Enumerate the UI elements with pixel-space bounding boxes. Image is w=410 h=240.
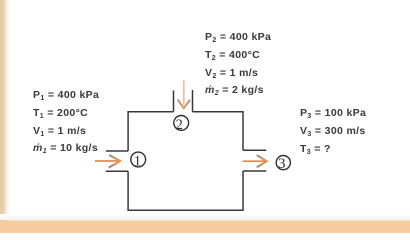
- node circle 1: [131, 152, 146, 167]
- inlet pipe 1 walls: [106, 151, 128, 171]
- inlet pipe 2 walls: [174, 90, 193, 112]
- stream 2 labels: [205, 29, 271, 100]
- stream 3 labels: [300, 104, 366, 159]
- svg-text:3: 3: [278, 156, 286, 172]
- node circle 2: [174, 116, 189, 131]
- outlet pipe 3 walls: [243, 150, 266, 171]
- bottom peach band: [0, 214, 410, 220]
- node circle 3: [276, 156, 290, 170]
- arrow stream 2: [183, 81, 185, 106]
- control volume box (with port gaps): [128, 112, 243, 210]
- left tan border stripe: [0, 0, 4, 221]
- svg-text:2: 2: [176, 117, 183, 133]
- stream 1 labels: [33, 87, 99, 158]
- svg-text:1: 1: [134, 153, 142, 169]
- arrow stream 3: [243, 160, 266, 162]
- arrow stream 1: [95, 160, 118, 162]
